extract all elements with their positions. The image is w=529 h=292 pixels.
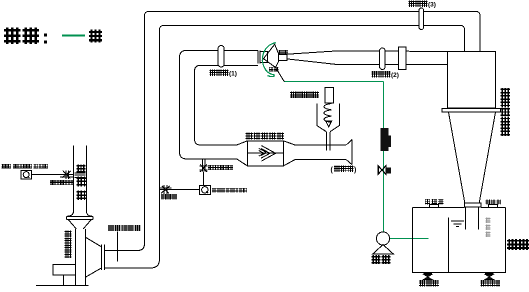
label 放空阀 left xyxy=(420,280,439,286)
svg-text:(3): (3) xyxy=(428,2,436,9)
wire mixer outlet pipe top wall xyxy=(283,141,346,145)
cyclone flange xyxy=(442,109,501,113)
legend water line xyxy=(62,35,85,37)
nozzle flange xyxy=(258,50,260,63)
water level mark xyxy=(451,221,464,227)
probe lines inside stack xyxy=(75,173,86,178)
legend text 备注： xyxy=(5,29,47,44)
hopper motor xyxy=(325,88,334,103)
venturi throat xyxy=(279,55,287,61)
hopper screw spiral xyxy=(324,104,332,123)
legend text 水 xyxy=(90,31,101,42)
fan inlet cone xyxy=(85,237,101,277)
label 水泵 xyxy=(372,256,389,264)
tap valve hash xyxy=(199,164,207,172)
label 喷嘴 xyxy=(279,50,287,54)
wire pipe inner wall (mixer elbow to venturi) xyxy=(195,65,258,145)
valve 调节阀(3) capsule xyxy=(419,8,424,30)
label 沉淀区 (grey, vertical) xyxy=(486,218,490,236)
gas-dust mixer box 气尘混合器 xyxy=(247,141,283,166)
water spray arc (green) xyxy=(262,43,275,76)
cyclone dip tube xyxy=(466,207,479,229)
water tank 水箱 outline xyxy=(413,208,506,273)
wire mixer outlet pipe bottom wall xyxy=(283,160,346,166)
sampling tap line xyxy=(160,189,200,191)
label 测压取样阀 xyxy=(208,165,232,170)
wire pipe outer wall (mixer elbow to venturi) xyxy=(180,50,258,165)
cyclone cone xyxy=(449,112,496,203)
drain valve left 放空阀 xyxy=(424,273,432,280)
bell mouth air inlet xyxy=(346,140,352,165)
label 调节阀(1) xyxy=(210,70,237,78)
label 离心风机 vertical xyxy=(65,231,71,258)
sampling valve on stack xyxy=(60,170,74,179)
label 调节阀(2) xyxy=(372,71,399,79)
sampling instrument box xyxy=(21,170,32,179)
stack reducer cone to fan xyxy=(69,220,92,229)
valve 调节阀(2) capsule xyxy=(380,48,386,70)
label 水箱 xyxy=(508,240,528,249)
sampling line to stack xyxy=(32,174,74,176)
label 取样阀 xyxy=(161,195,176,200)
pump base triangle xyxy=(372,245,394,255)
cyclone separator body xyxy=(448,52,496,109)
label 风量风压测量点 xyxy=(213,189,247,193)
drain valve right 放空阀 xyxy=(485,273,493,280)
svg-text:(2): (2) xyxy=(391,72,399,79)
label (补风口) xyxy=(331,166,357,174)
label 风量调节阀 xyxy=(108,225,140,230)
label 机械进料斗 xyxy=(291,92,319,98)
tank partition xyxy=(448,218,450,273)
rotameter flow meter xyxy=(380,128,391,151)
nozzle body xyxy=(260,51,267,62)
observation port right xyxy=(489,205,498,208)
instrument box (flow/pressure) xyxy=(199,185,210,194)
label 气尘混合器 xyxy=(246,133,283,139)
label 烟气排放监测点 xyxy=(2,164,48,168)
damper leader line xyxy=(117,232,119,262)
water line horizontal (green) xyxy=(284,81,383,83)
label 观察口 left xyxy=(425,199,443,204)
water valve on green line xyxy=(378,166,391,174)
valve rectangle on cyclone inlet xyxy=(398,47,406,70)
mixer chevron arrows xyxy=(259,146,276,161)
label 排气管 vertical xyxy=(77,165,85,199)
svg-text:): ) xyxy=(354,167,356,174)
hopper walls xyxy=(317,104,340,132)
tap twin lines xyxy=(202,160,205,172)
sampling valve xyxy=(160,185,172,194)
hopper discharge tube xyxy=(327,132,330,151)
label 旋风分离器 vertical xyxy=(501,89,509,136)
wire pipe outer wall (fan outlet to cyclone top) xyxy=(105,12,481,251)
wire venturi expansion bottom wall xyxy=(287,59,448,65)
label 观察口 right xyxy=(486,200,501,204)
label 调节阀(3) xyxy=(409,1,436,9)
ground line xyxy=(36,285,89,287)
stack walls 排气管 xyxy=(74,146,87,212)
nozzle spray lines xyxy=(262,44,284,82)
pump 水泵 circle xyxy=(376,232,389,245)
tap line to instrument xyxy=(203,171,205,185)
label 进水 xyxy=(269,67,278,71)
stack trumpet flange xyxy=(66,212,93,220)
cyclone collar xyxy=(465,203,482,207)
fan casing xyxy=(76,229,86,286)
water line vertical (green) xyxy=(383,82,385,232)
observation port left xyxy=(430,205,439,208)
svg-text:(1): (1) xyxy=(229,71,237,78)
fan base xyxy=(53,265,76,275)
label 取样调节阀 xyxy=(51,181,74,185)
label 放空阀 right xyxy=(481,280,500,286)
fan inlet flange xyxy=(102,245,105,270)
wire venturi expansion top wall xyxy=(287,51,448,54)
valve 调节阀(1) capsule xyxy=(218,46,224,68)
water line pump to tank (green) xyxy=(390,238,429,240)
wire pipe inner wall (fan outlet to cyclone top) xyxy=(105,26,465,269)
